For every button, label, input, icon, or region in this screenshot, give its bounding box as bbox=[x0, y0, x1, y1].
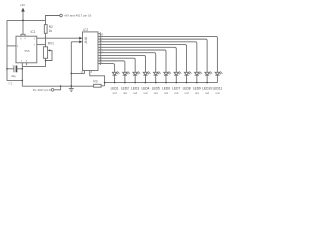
svg-text:16: 16 bbox=[101, 33, 104, 35]
svg-text:LED7: LED7 bbox=[172, 87, 180, 91]
svg-text:10µ: 10µ bbox=[11, 74, 16, 78]
svg-text:red: red bbox=[205, 91, 209, 95]
svg-text:red: red bbox=[185, 91, 189, 95]
svg-text:red: red bbox=[195, 91, 199, 95]
svg-text:LED3: LED3 bbox=[131, 87, 139, 91]
svg-text:3: 3 bbox=[34, 39, 36, 41]
svg-text:1k: 1k bbox=[49, 29, 53, 33]
svg-text:red: red bbox=[113, 91, 117, 95]
svg-text:555: 555 bbox=[25, 49, 30, 53]
svg-text:8: 8 bbox=[91, 72, 93, 74]
svg-text:+9V and 4017 pin 16: +9V and 4017 pin 16 bbox=[64, 14, 92, 18]
svg-text:0V, 4017 pin 8: 0V, 4017 pin 8 bbox=[33, 88, 51, 92]
svg-text:red: red bbox=[143, 91, 147, 95]
svg-text:IC1: IC1 bbox=[31, 30, 36, 34]
svg-text:red: red bbox=[154, 91, 158, 95]
svg-text:C1: C1 bbox=[9, 81, 13, 85]
svg-text:LED8: LED8 bbox=[183, 87, 191, 91]
svg-text:4: 4 bbox=[24, 39, 26, 41]
svg-text:LED4: LED4 bbox=[141, 87, 149, 91]
svg-text:RV1: RV1 bbox=[48, 41, 54, 45]
svg-text:red: red bbox=[133, 91, 137, 95]
svg-text:red: red bbox=[215, 91, 219, 95]
svg-text:LED1: LED1 bbox=[111, 87, 119, 91]
svg-text:8: 8 bbox=[20, 39, 22, 41]
svg-text:4: 4 bbox=[17, 46, 19, 48]
svg-text:red: red bbox=[123, 91, 127, 95]
svg-text:IC2: IC2 bbox=[83, 28, 88, 32]
svg-text:LED5: LED5 bbox=[152, 87, 160, 91]
svg-text:+9V: +9V bbox=[20, 3, 25, 7]
svg-text:R3: R3 bbox=[93, 80, 97, 84]
svg-text:7: 7 bbox=[34, 45, 36, 47]
svg-text:red: red bbox=[174, 91, 178, 95]
svg-text:LED2: LED2 bbox=[121, 87, 129, 91]
svg-text:LED10: LED10 bbox=[202, 87, 212, 91]
svg-text:red: red bbox=[164, 91, 168, 95]
svg-text:LED9: LED9 bbox=[193, 87, 201, 91]
svg-text:LED6: LED6 bbox=[162, 87, 170, 91]
svg-text:LED11: LED11 bbox=[213, 87, 223, 91]
